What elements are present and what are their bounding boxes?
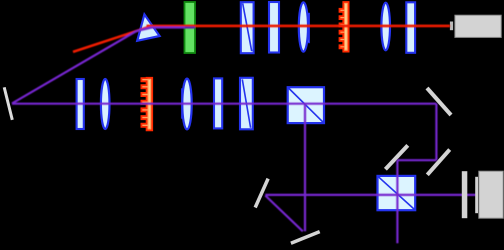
laser output nub bbox=[450, 22, 453, 31]
mirror M1 (left, row 2) bbox=[4, 87, 12, 120]
mirror M6 (bottom delay mirror) bbox=[291, 232, 320, 244]
lens L6 (row 2 ellipse) bbox=[101, 79, 110, 129]
camera lens element bbox=[475, 177, 478, 213]
beam purple diagonal M6 to M5 bbox=[265, 196, 303, 232]
beam purple vertical from cube1 down bbox=[304, 104, 306, 231]
beam purple inside green crystal (darkened) bbox=[185, 26, 195, 28]
lens L8 (row 2 rect) bbox=[214, 78, 222, 128]
beam red dispersed ray from prism bbox=[73, 27, 149, 52]
beam purple vertical through cube2 bbox=[396, 160, 398, 243]
grating G2 (row 2) bbox=[141, 78, 152, 131]
lens L7 (row 2 ellipse with shoulder) bbox=[182, 79, 192, 130]
lens L2 (row 1 ellipse with shoulder) bbox=[299, 2, 309, 51]
wedge W1 (row 1) bbox=[241, 2, 254, 53]
mirror M4 (upper left of cube 2) bbox=[385, 145, 407, 169]
SHG crystal (green) bbox=[185, 2, 196, 53]
lens L4 (row 1 rect) bbox=[406, 2, 415, 53]
beam purple bottom horizontal to camera bbox=[265, 194, 476, 196]
beam purple horizontal M3 to M4 bbox=[397, 159, 436, 161]
laser body bbox=[455, 15, 501, 37]
mirror M2 (row 2 right, folds beam down) bbox=[427, 88, 451, 115]
wedge W2 (row 2) bbox=[240, 78, 253, 130]
prism bbox=[137, 14, 159, 40]
grating G1 (row 1) bbox=[340, 2, 349, 52]
mirror M5 (lower-left delay mirror) bbox=[255, 179, 268, 208]
beamsplitter cube BS2 bbox=[378, 176, 416, 210]
mirror M3 (upper right of cube 2) bbox=[427, 150, 449, 175]
lens L3 (row 1 ellipse) bbox=[381, 3, 390, 51]
beam purple diagonal (prism to mirror M1) bbox=[12, 31, 137, 103]
lens L5 (row 2 rect) bbox=[77, 79, 84, 129]
beam purple row2 horizontal bbox=[12, 103, 436, 105]
beam red main (laser to prism) bbox=[147, 25, 451, 28]
camera filter plate bbox=[462, 171, 468, 218]
beamsplitter cube BS1 bbox=[288, 87, 324, 123]
camera body bbox=[479, 171, 503, 218]
beam purple kink inside prism bbox=[137, 28, 152, 32]
beam purple row1 (crystal to prism) bbox=[151, 26, 185, 28]
lens L1 (row 1 rect) bbox=[269, 2, 279, 53]
beam purple vertical M2 to M3 bbox=[435, 104, 437, 161]
